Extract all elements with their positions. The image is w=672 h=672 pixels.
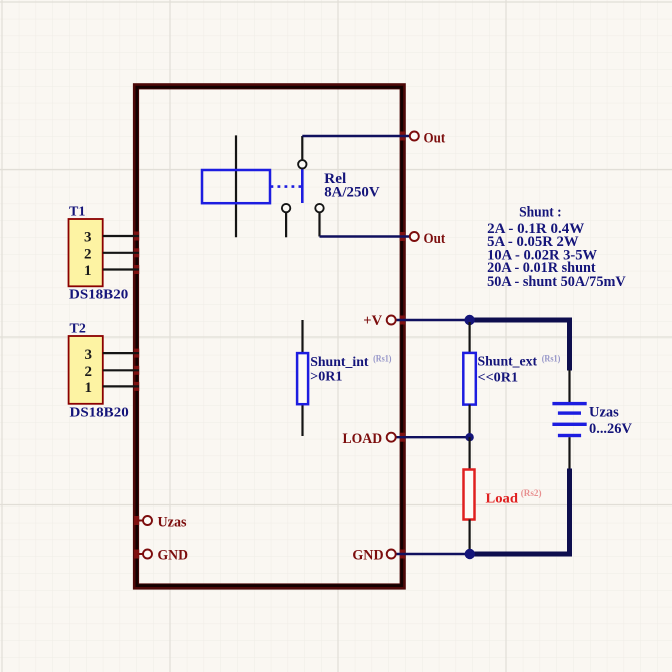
- svg-text:1: 1: [85, 380, 93, 396]
- sheet entry tick Out bottom: [400, 232, 405, 241]
- resistor Shunt_int: [297, 353, 308, 404]
- sheet entry tick GND left: [134, 550, 139, 559]
- battery bottom pin: [568, 437, 570, 469]
- port Uzas: [143, 516, 152, 525]
- svg-text:1: 1: [84, 263, 92, 279]
- relay coil pin: [235, 135, 237, 237]
- thick wire battery bottom to GND junction: [470, 469, 570, 555]
- relay pin circle right contact: [315, 204, 323, 212]
- svg-text:Shunt_ext: Shunt_ext: [478, 354, 538, 369]
- relay contact pin left: [285, 213, 287, 238]
- sheet entry tick Out top: [400, 132, 405, 141]
- load bottom pin: [469, 520, 471, 555]
- svg-text:3: 3: [85, 347, 93, 363]
- thick wire +V junction to battery top: [470, 320, 570, 371]
- T1 pin 3 wire: [103, 235, 139, 237]
- wire relay to Out bottom: [320, 235, 411, 237]
- resistor Load: [464, 470, 475, 520]
- sheet entry tick pin3 T1: [134, 232, 139, 241]
- relay common pin up: [301, 136, 303, 160]
- shunt_ext bottom pin: [469, 405, 471, 438]
- svg-text:50A - shunt 50A/75mV: 50A - shunt 50A/75mV: [487, 274, 626, 290]
- svg-text:<<0R1: <<0R1: [478, 371, 519, 386]
- svg-text:DS18B20: DS18B20: [70, 406, 129, 421]
- sheet entry tick pin2 T2: [134, 366, 139, 375]
- svg-text:3: 3: [84, 230, 92, 246]
- sheet entry tick Uzas: [134, 516, 139, 525]
- svg-text:Shunt :: Shunt :: [519, 204, 562, 220]
- svg-text:8A/250V: 8A/250V: [324, 185, 380, 201]
- junction dot LOAD: [465, 433, 473, 441]
- svg-text:Out: Out: [424, 130, 446, 146]
- port Out top: [410, 132, 419, 141]
- shunt note text block: [487, 204, 626, 290]
- relay pin circle left contact: [282, 204, 290, 212]
- connector T1: [69, 205, 129, 303]
- T2 pin 2 wire: [103, 369, 139, 371]
- svg-text:T2: T2: [70, 321, 86, 336]
- relay contact pin right: [318, 213, 320, 237]
- svg-text:GND: GND: [158, 548, 189, 564]
- T2 pin 3 wire: [103, 352, 139, 354]
- svg-text:GND: GND: [352, 548, 383, 564]
- sheet symbol box: [136, 86, 403, 586]
- svg-text:Load: Load: [486, 491, 519, 506]
- svg-text:Uzas: Uzas: [158, 515, 187, 531]
- port +V: [387, 316, 396, 325]
- wire +V to junction: [396, 319, 470, 321]
- sheet entry tick GND right: [400, 550, 405, 559]
- port GND right: [387, 550, 396, 559]
- junction dot GND: [465, 549, 475, 559]
- svg-text:Shunt_int: Shunt_int: [310, 355, 369, 370]
- relay coil: [202, 170, 270, 203]
- sheet entry tick +V: [400, 316, 405, 325]
- port LOAD: [387, 433, 396, 442]
- svg-text:0...26V: 0...26V: [589, 421, 632, 437]
- battery top pin: [568, 370, 570, 402]
- wire relay to Out top: [302, 135, 410, 137]
- port GND left stub: [137, 553, 143, 555]
- resistor Shunt_ext: [463, 353, 476, 405]
- wire GND to junction: [396, 553, 470, 555]
- relay link dotted: [271, 185, 302, 188]
- svg-text:DS18B20: DS18B20: [69, 288, 128, 303]
- T1 pin 2 wire: [103, 252, 139, 254]
- svg-text:LOAD: LOAD: [343, 431, 383, 447]
- port GND left: [143, 550, 152, 559]
- shunt_int pin wire: [301, 320, 303, 436]
- svg-text:Out: Out: [424, 231, 446, 247]
- sheet entry tick pin2 T1: [134, 248, 139, 257]
- sheet entry tick pin1 T1: [134, 265, 139, 274]
- junction dot +V: [464, 315, 474, 325]
- port Out bottom: [410, 232, 419, 241]
- port Uzas stub: [137, 520, 143, 522]
- connector T2: [69, 321, 129, 420]
- svg-text:(Rs2): (Rs2): [521, 488, 542, 499]
- svg-text:Uzas: Uzas: [589, 404, 619, 420]
- svg-text:2: 2: [84, 246, 92, 262]
- relay armature: [301, 169, 304, 203]
- sheet entry tick pin3 T2: [134, 349, 139, 358]
- svg-text:+V: +V: [363, 313, 382, 329]
- sheet entry tick LOAD: [400, 433, 405, 442]
- relay pin circle common: [298, 160, 306, 168]
- svg-text:2: 2: [85, 364, 93, 380]
- sheet entry tick pin1 T2: [134, 382, 139, 391]
- svg-text:T1: T1: [69, 205, 85, 220]
- svg-text:>0R1: >0R1: [310, 370, 342, 385]
- T1 pin 1 wire: [103, 268, 139, 270]
- svg-text:(Rs1): (Rs1): [373, 353, 391, 364]
- svg-text:(Rs1): (Rs1): [542, 354, 561, 365]
- shunt_ext top pin: [469, 322, 471, 353]
- load top pin: [469, 437, 471, 470]
- wire LOAD to junction: [396, 436, 470, 438]
- battery Uzas plates: [552, 402, 586, 437]
- T2 pin 1 wire: [103, 385, 139, 387]
